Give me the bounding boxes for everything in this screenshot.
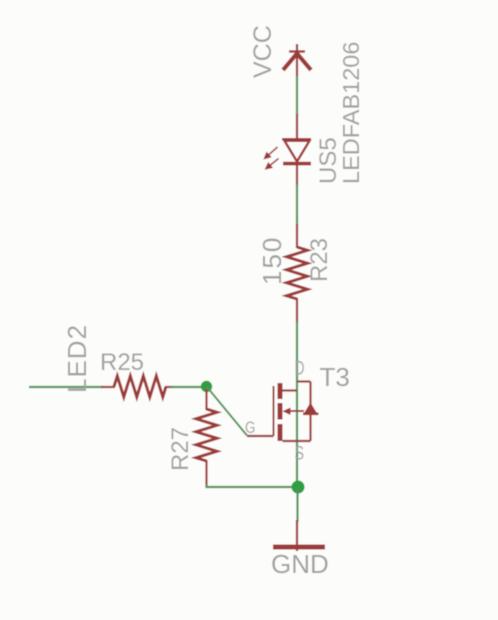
resistor R27: [196, 389, 217, 486]
svg-text:GND: GND: [271, 549, 329, 579]
svg-text:LEDFAB1206: LEDFAB1206: [338, 42, 364, 184]
wire LED to R23: [296, 184, 298, 226]
bar1 connector: [283, 389, 298, 391]
LED emission arrow 2: [266, 159, 279, 170]
mosfet T3: [247, 382, 319, 442]
svg-text:R25: R25: [100, 349, 144, 376]
wire junction to GND: [296, 487, 298, 522]
svg-text:150: 150: [257, 236, 287, 285]
ground: [273, 520, 325, 551]
junction node source/gnd: [292, 481, 305, 494]
channel bar middle: [278, 403, 283, 420]
resistor R23: [287, 224, 308, 323]
svg-text:T3: T3: [320, 362, 350, 392]
channel bar top: [278, 383, 283, 399]
junction node gate: [201, 381, 212, 392]
supply VCC: [283, 44, 311, 77]
LED emission arrow 1: [264, 147, 277, 159]
resistor R25: [101, 376, 173, 397]
wire R27 to bottom junction: [207, 485, 299, 488]
LED US5: [282, 114, 311, 186]
wire junction to gate (diagonal): [207, 387, 247, 436]
drain branch: [297, 380, 311, 382]
wire R25 to junction: [171, 386, 205, 388]
wire VCC to LED: [296, 76, 298, 116]
svg-text:VCC: VCC: [249, 25, 277, 78]
channel bar bottom: [278, 424, 283, 441]
substrate arrow: [283, 408, 291, 416]
svg-text:LED2: LED2: [62, 324, 92, 393]
svg-text:D: D: [295, 359, 305, 380]
wire R23 to MOSFET and through to junction: [296, 322, 298, 488]
gate lead: [247, 435, 274, 437]
body diode triangle: [305, 403, 317, 413]
substrate line: [288, 410, 304, 412]
svg-text:R23: R23: [306, 238, 333, 282]
svg-text:R27: R27: [167, 427, 194, 471]
wire net LED2: [29, 386, 103, 388]
body diode bar: [303, 413, 319, 416]
svg-text:S: S: [295, 444, 305, 465]
gate line: [273, 386, 275, 436]
